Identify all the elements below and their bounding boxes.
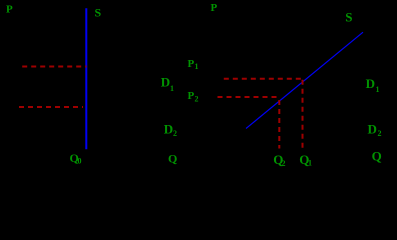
svg-text:1: 1 [376,85,380,94]
svg-text:P: P [188,58,195,70]
svg-text:1: 1 [195,62,199,71]
svg-text:S: S [345,9,352,24]
right supply curve S (rising blue) [246,32,363,128]
svg-text:D: D [164,122,173,137]
left P1 dashed price line [22,66,86,68]
left P2 dashed price line [19,106,83,108]
right Q2 dashed quantity line [278,100,280,149]
svg-text:2: 2 [195,95,199,104]
svg-text:2: 2 [378,129,382,138]
svg-text:1: 1 [308,159,312,168]
left supply curve S (vertical blue) [85,8,87,149]
svg-text:D: D [368,121,377,136]
svg-text:Q: Q [168,152,177,166]
svg-text:2: 2 [282,159,286,168]
svg-text:P: P [188,90,195,102]
svg-text:P: P [6,4,13,16]
svg-text:D: D [161,75,170,90]
svg-text:Q: Q [372,148,382,163]
svg-text:D: D [366,76,375,91]
svg-text:P: P [211,2,218,14]
right Q1 dashed quantity line [302,80,304,149]
right P2 dashed price line [218,96,279,98]
svg-text:0: 0 [78,157,82,166]
right P1 dashed price line [224,78,302,80]
svg-text:1: 1 [170,84,174,93]
svg-text:S: S [95,6,102,20]
svg-text:2: 2 [173,129,177,138]
